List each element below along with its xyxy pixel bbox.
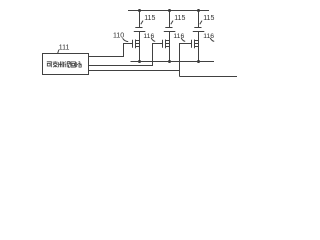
node: source bus junction col3 bbox=[197, 60, 200, 63]
control box 111 bbox=[43, 54, 89, 75]
wire: bottom line continuing right bbox=[180, 76, 238, 78]
wire: col3 capacitor to source bus bbox=[198, 32, 200, 62]
leader for label 116 col3 bbox=[210, 38, 214, 41]
wire: col2 capacitor to source bus bbox=[169, 32, 171, 62]
svg-text:115: 115 bbox=[174, 15, 185, 22]
wire: gate T2 to box output 2 bbox=[89, 44, 163, 66]
svg-text:116: 116 bbox=[143, 33, 154, 40]
node: rail junction col1 bbox=[138, 9, 141, 12]
svg-text:115: 115 bbox=[203, 15, 214, 22]
transistor 116 (col3): channel bar bbox=[194, 40, 196, 49]
capacitor 115 (col3) bbox=[194, 27, 201, 29]
transistor 116 (col2): channel bar bbox=[165, 40, 167, 49]
node: source bus junction col1 bbox=[138, 60, 141, 63]
transistor 116 (col1): bulk stub bbox=[136, 43, 140, 45]
leader for label 115 col1 bbox=[141, 21, 143, 25]
leader for label 115 col2 bbox=[171, 21, 173, 25]
wire: box output 3 bbox=[89, 70, 180, 72]
capacitor 115 (col1) bbox=[135, 27, 142, 29]
transistor 116 (col3): source stub bbox=[195, 46, 199, 48]
wire: supply rail bbox=[128, 10, 209, 12]
node: rail junction col2 bbox=[168, 9, 171, 12]
transistor 116 (col1): drain stub bbox=[136, 40, 140, 42]
leader for label 110 bbox=[123, 38, 129, 41]
wire: col2 rail to capacitor bbox=[169, 11, 171, 28]
wire: col3 rail to capacitor bbox=[198, 11, 200, 28]
node: source bus junction col2 bbox=[168, 60, 171, 63]
transistor 116 (col3): gate bar bbox=[191, 40, 193, 48]
leader for label 116 col1 bbox=[151, 38, 155, 41]
wire: gate T1 to box output 1 bbox=[89, 44, 133, 57]
transistor 116 (col2): bulk stub bbox=[166, 43, 170, 45]
svg-text:115: 115 bbox=[144, 15, 155, 22]
leader for label 116 col2 bbox=[181, 38, 185, 41]
node: rail junction col3 bbox=[197, 9, 200, 12]
box text: 可変制御回路 drawn as stroke glyphs bbox=[47, 61, 82, 67]
wire: common source bus bbox=[131, 61, 215, 63]
transistor 116 (col2): gate bar bbox=[162, 40, 164, 48]
transistor 116 (col3): drain stub bbox=[195, 40, 199, 42]
leader for label 115 col3 bbox=[200, 21, 202, 25]
wire: gate T3 riser bbox=[180, 44, 192, 77]
wire: col1 capacitor to source bus bbox=[139, 32, 141, 62]
transistor 116 (col1): gate bar bbox=[132, 40, 134, 48]
svg-text:116: 116 bbox=[203, 33, 214, 40]
leader for label 111 bbox=[58, 50, 59, 54]
transistor 116 (col3): bulk stub bbox=[195, 43, 199, 45]
svg-text:116: 116 bbox=[173, 33, 184, 40]
transistor 116 (col1): source stub bbox=[136, 46, 140, 48]
capacitor 115 (col2) bbox=[165, 27, 172, 29]
svg-text:110: 110 bbox=[113, 33, 124, 40]
transistor 116 (col2): source stub bbox=[166, 46, 170, 48]
transistor 116 (col2): drain stub bbox=[166, 40, 170, 42]
wire: col1 rail to capacitor bbox=[139, 11, 141, 28]
transistor 116 (col1): channel bar bbox=[135, 40, 137, 49]
svg-text:111: 111 bbox=[59, 44, 70, 51]
